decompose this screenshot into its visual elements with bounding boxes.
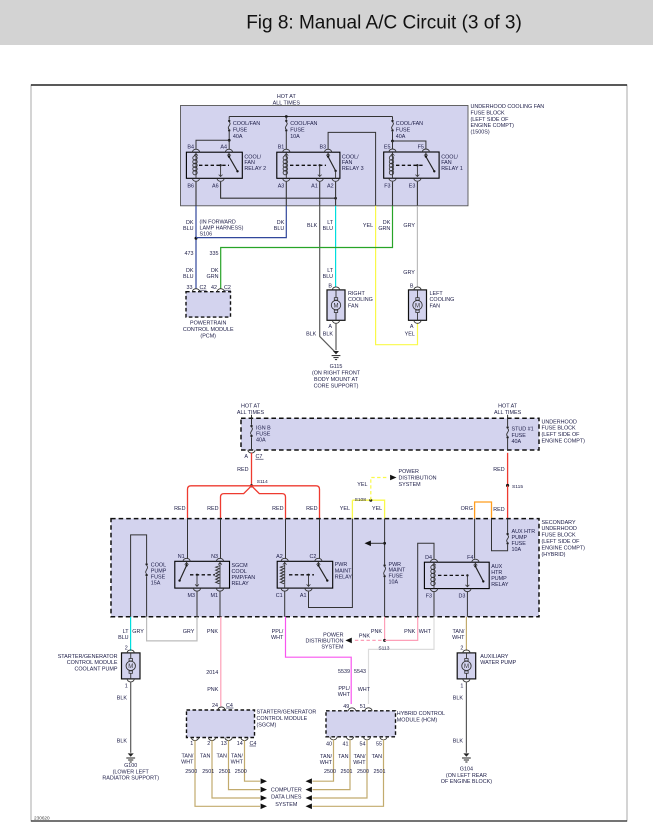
- svg-text:COOLING: COOLING: [348, 297, 373, 303]
- fuse STUD #1 FUSE 40A: [507, 418, 509, 426]
- svg-text:HOT AT: HOT AT: [277, 94, 297, 100]
- module HYBRID CONTROL MODULE (HCM): [326, 711, 396, 737]
- wire relay1 F3 to box bottom: [392, 182, 394, 206]
- svg-text:FUSE BLOCK: FUSE BLOCK: [471, 110, 506, 116]
- pin A2: [281, 558, 288, 561]
- wire TAN/WHT from D3 to aux water pump: [465, 617, 467, 651]
- svg-text:(PCM): (PCM): [200, 333, 216, 339]
- wire red feed to C2 (inside): [319, 519, 321, 559]
- junction A6/A2: [334, 197, 337, 200]
- svg-text:FUSE: FUSE: [233, 127, 248, 133]
- wire TAN circuit 2501 SGCM 13 to data lines: [229, 740, 261, 789]
- pin N3: [216, 558, 223, 561]
- svg-text:DATA LINES: DATA LINES: [271, 795, 302, 801]
- pin A (left fan): [414, 320, 421, 323]
- junction arrow tap on PWR MAINT feed: [383, 542, 386, 545]
- svg-text:SYSTEM: SYSTEM: [399, 482, 422, 488]
- svg-text:WHT: WHT: [358, 687, 371, 693]
- svg-text:(1500S): (1500S): [471, 130, 490, 136]
- svg-text:UNDERHOOD COOLING FAN: UNDERHOOD COOLING FAN: [471, 104, 545, 110]
- svg-text:FUSE: FUSE: [256, 432, 271, 438]
- pin D4: [430, 559, 437, 562]
- pin F3: [430, 589, 437, 592]
- svg-text:HOT AT: HOT AT: [498, 404, 518, 410]
- junction below right fuse: [391, 140, 394, 143]
- wire RED S115 to AUX HTR PUMP fuse: [507, 486, 509, 519]
- svg-text:HOT AT: HOT AT: [241, 404, 261, 410]
- wire red feed to N3 (inside): [220, 519, 222, 559]
- fuse IGN B FUSE 40A: [251, 418, 253, 425]
- wire YEL from relay3 B3 to left fan A: [376, 206, 418, 345]
- splice S113: [383, 639, 386, 642]
- wire feed bus inside fuse block: [229, 116, 392, 118]
- wire WHT circuit 5543 to HCM 51: [369, 617, 435, 704]
- svg-text:B6: B6: [187, 184, 194, 190]
- svg-text:ENGINE COMPT): ENGINE COMPT): [471, 123, 515, 129]
- wire DK BLU circuit 473 (B6 to splice S106 to PCM 33): [195, 206, 197, 289]
- pin A C7 (IGN B fuse output): [248, 450, 255, 453]
- relay COOL/FAN RELAY 1: [384, 145, 439, 190]
- svg-text:UNDERHOOD: UNDERHOOD: [542, 419, 577, 425]
- wire PNK from PWR MAINT fuse to splice S113: [384, 617, 386, 641]
- relay3 dashed link: [290, 164, 326, 166]
- svg-text:CORE SUPPORT): CORE SUPPORT): [314, 383, 359, 389]
- svg-text:A6: A6: [212, 184, 219, 190]
- svg-text:BLK: BLK: [323, 332, 334, 338]
- svg-text:(SGCM): (SGCM): [257, 722, 277, 728]
- svg-text:230620: 230620: [34, 816, 50, 821]
- pin N1: [183, 558, 190, 561]
- svg-text:BLK: BLK: [453, 739, 464, 745]
- svg-text:40A: 40A: [233, 134, 243, 140]
- pin 1 (coolant pump): [127, 679, 134, 682]
- wire ORG jog over box (aux fuse to F4): [475, 502, 492, 519]
- wire fuse3 to relay1 pin E5: [392, 141, 394, 149]
- svg-text:Fig 8: Manual A/C Circuit (3 o: Fig 8: Manual A/C Circuit (3 of 3): [246, 13, 522, 34]
- svg-text:G104: G104: [460, 766, 473, 772]
- relay COOL/FAN RELAY 2: [186, 145, 242, 190]
- svg-text:BLU: BLU: [323, 226, 334, 232]
- svg-text:ALL TIMES: ALL TIMES: [237, 410, 265, 416]
- svg-text:COOLING: COOLING: [430, 297, 455, 303]
- svg-text:RIGHT: RIGHT: [348, 291, 365, 297]
- svg-text:BLK: BLK: [117, 739, 128, 745]
- svg-text:M: M: [128, 664, 133, 670]
- svg-text:2: 2: [460, 645, 463, 651]
- svg-text:BODY MOUNT AT: BODY MOUNT AT: [314, 377, 359, 383]
- svg-text:(LEFT SIDE OF: (LEFT SIDE OF: [471, 117, 510, 123]
- svg-text:WHT: WHT: [271, 635, 284, 641]
- relay3 switch blade: [327, 152, 329, 156]
- svg-text:2501: 2501: [374, 769, 386, 775]
- svg-text:RED: RED: [207, 506, 218, 512]
- svg-text:ORG: ORG: [461, 506, 473, 512]
- svg-text:2501: 2501: [202, 769, 214, 775]
- arrow data line HCM 55: [306, 804, 312, 810]
- aux relay output stub D3: [466, 574, 468, 576]
- wire BLK aux pump to ground G104: [465, 682, 467, 753]
- junction below left fuse: [228, 139, 231, 142]
- arrow data line HCM 40: [306, 778, 312, 784]
- wire RED from IGN B fuse to splice S114: [251, 453, 253, 486]
- svg-text:10A: 10A: [290, 134, 300, 140]
- arrow to power distribution system: [390, 475, 396, 481]
- wire YEL from A1 riser to splice S108: [351, 500, 353, 518]
- svg-text:COOL/FAN: COOL/FAN: [396, 121, 423, 127]
- pin B (left fan): [414, 287, 421, 290]
- svg-text:C2: C2: [309, 554, 316, 560]
- wire GRY loop fuse to M3: [147, 617, 197, 641]
- svg-text:BLU: BLU: [183, 274, 194, 280]
- wire hot feed into IGN B fuse: [251, 415, 253, 418]
- wire relay2 B6 to box bottom: [195, 182, 197, 206]
- svg-text:RED: RED: [493, 467, 504, 473]
- svg-text:SYSTEM: SYSTEM: [321, 645, 344, 651]
- pin 51 (HCM): [365, 708, 372, 711]
- relay PWR MAINT RELAY: [276, 554, 333, 599]
- wire relay2 A6 jog to relay3 A2 line: [221, 182, 336, 199]
- pin E3: [414, 178, 421, 181]
- svg-text:DISTRIBUTION: DISTRIBUTION: [399, 476, 437, 482]
- wire TAN circuit 2501 SGCM 2 to data lines: [212, 740, 260, 798]
- svg-text:YEL: YEL: [357, 482, 367, 488]
- svg-text:335: 335: [210, 251, 219, 257]
- svg-text:GRY: GRY: [403, 270, 415, 276]
- svg-text:B4: B4: [187, 145, 194, 151]
- pin B3: [325, 149, 332, 152]
- svg-text:RELAY 2: RELAY 2: [244, 166, 266, 172]
- pin 14 (SGCM): [241, 738, 248, 741]
- motor RIGHT COOLING FAN: [327, 290, 345, 320]
- svg-text:M: M: [464, 664, 469, 670]
- svg-text:G100: G100: [124, 763, 137, 769]
- svg-text:FAN: FAN: [348, 303, 359, 309]
- wire A1 to yellow riser (inside): [309, 519, 353, 608]
- wire relay3 A3 to box bottom: [285, 182, 287, 206]
- motor STARTER/GENERATOR CONTROL MODULE COOLANT PUMP: [122, 653, 141, 679]
- svg-text:ENGINE COMPT): ENGINE COMPT): [542, 439, 586, 445]
- svg-text:33: 33: [187, 285, 193, 291]
- svg-text:WHT: WHT: [231, 759, 244, 765]
- svg-text:BLK: BLK: [117, 696, 128, 702]
- pin 1 (SGCM): [191, 738, 198, 741]
- svg-text:C1: C1: [276, 593, 283, 599]
- relay3 output stub A1: [319, 164, 321, 166]
- wire RED S114 branch to relay C2: [252, 486, 320, 519]
- svg-text:10A: 10A: [512, 547, 522, 553]
- pin B4: [192, 149, 199, 152]
- svg-text:15A: 15A: [151, 580, 161, 586]
- aux relay dashed link: [438, 574, 464, 576]
- wire YEL from S108 to PWR MAINT fuse: [352, 500, 384, 518]
- wire D4 feed jog (inside): [418, 543, 434, 617]
- pwr maint relay coil: [284, 561, 286, 564]
- svg-text:M: M: [415, 303, 420, 309]
- svg-text:A2: A2: [327, 184, 334, 190]
- svg-text:YEL: YEL: [405, 332, 415, 338]
- svg-text:RED: RED: [237, 467, 248, 473]
- arrow data line SGCM 13: [261, 787, 267, 793]
- svg-text:STUD #1: STUD #1: [512, 427, 534, 433]
- svg-text:YEL: YEL: [372, 506, 382, 512]
- pin 13 (SGCM): [225, 738, 232, 741]
- svg-text:WATER PUMP: WATER PUMP: [480, 660, 516, 666]
- svg-text:STARTER/GENERATOR: STARTER/GENERATOR: [58, 654, 118, 660]
- relay1 output stub E3: [416, 164, 418, 166]
- pin F5: [422, 149, 429, 152]
- svg-text:F5: F5: [418, 145, 424, 151]
- svg-text:BLU: BLU: [274, 226, 285, 232]
- svg-text:S106: S106: [200, 232, 213, 238]
- svg-text:PNK: PNK: [371, 629, 382, 635]
- pin A4: [225, 149, 232, 152]
- svg-text:COOLANT PUMP: COOLANT PUMP: [74, 666, 117, 672]
- pin 24 C4 (SGCM): [218, 707, 225, 710]
- pin A1: [305, 588, 312, 591]
- wire DK GRN from relay1 F3 to PCM 42: [221, 206, 393, 289]
- aux relay coil: [433, 562, 435, 565]
- wire RED S114 branch to relay N3: [221, 486, 252, 519]
- wire M1 to box bottom (inside): [219, 591, 221, 617]
- pin E5: [389, 149, 396, 152]
- svg-text:IGN B: IGN B: [256, 425, 271, 431]
- svg-text:HYBRID CONTROL: HYBRID CONTROL: [397, 711, 445, 717]
- svg-text:MAINT: MAINT: [335, 568, 352, 574]
- aux relay switch blade: [474, 562, 476, 566]
- svg-text:AUXILIARY: AUXILIARY: [480, 654, 508, 660]
- wire TAN circuit 2501 HCM 55 to data lines: [313, 740, 384, 807]
- pwr maint relay switch blade: [317, 561, 319, 565]
- svg-text:B: B: [410, 283, 414, 289]
- pin F3: [389, 178, 396, 181]
- svg-text:A4: A4: [220, 145, 227, 151]
- svg-text:51: 51: [360, 704, 366, 710]
- svg-text:2: 2: [207, 741, 210, 747]
- svg-text:N1: N1: [178, 554, 185, 560]
- wire BLK right fan A to ground G115: [335, 323, 337, 350]
- wire fuse3 to relay1 pin F5: [393, 141, 426, 149]
- arrow to power distribution (bottom): [345, 638, 351, 644]
- svg-text:B3: B3: [320, 145, 327, 151]
- underhood cooling fan fuse block (box): [181, 106, 469, 206]
- sgcm relay output stub M3: [196, 574, 198, 576]
- svg-text:SYSTEM: SYSTEM: [275, 802, 298, 808]
- svg-text:S114: S114: [257, 479, 268, 485]
- svg-text:FUSE: FUSE: [290, 127, 305, 133]
- relay1 dashed link: [396, 164, 423, 166]
- svg-text:TAN: TAN: [200, 753, 210, 759]
- svg-text:2500: 2500: [185, 769, 197, 775]
- svg-text:42: 42: [211, 285, 217, 291]
- pin B6: [192, 178, 199, 181]
- svg-text:RELAY: RELAY: [335, 575, 353, 581]
- splice S114: [250, 484, 253, 487]
- ground G104: [463, 753, 469, 756]
- svg-text:BLK: BLK: [306, 332, 317, 338]
- svg-text:FUSE BLOCK: FUSE BLOCK: [542, 426, 577, 432]
- svg-text:FUSE: FUSE: [512, 433, 527, 439]
- wire LT BLU from relay3 A2 to right fan B: [335, 206, 337, 287]
- svg-text:COOL/FAN: COOL/FAN: [290, 121, 317, 127]
- svg-text:YEL: YEL: [340, 506, 350, 512]
- relay1 coil: [392, 152, 394, 156]
- svg-text:BLU: BLU: [183, 226, 194, 232]
- svg-text:2501: 2501: [341, 769, 353, 775]
- svg-text:PNK: PNK: [404, 629, 415, 635]
- svg-text:RED: RED: [174, 506, 185, 512]
- svg-text:GRN: GRN: [207, 274, 219, 280]
- svg-text:RADIATOR SUPPORT): RADIATOR SUPPORT): [102, 775, 159, 781]
- fuse COOL/FAN FUSE 40A (right): [392, 117, 394, 120]
- pin 55 (HCM): [380, 737, 387, 740]
- svg-text:S113: S113: [378, 645, 389, 651]
- svg-text:WHT: WHT: [338, 692, 351, 698]
- svg-text:WHT: WHT: [181, 759, 194, 765]
- title bar: [0, 0, 653, 45]
- pin 2 (coolant pump): [127, 650, 134, 653]
- wire BLK from relay3 A1 to ground G115: [320, 206, 335, 352]
- arrow data line SGCM 2: [261, 795, 267, 801]
- svg-text:40A: 40A: [256, 438, 266, 444]
- svg-text:RED: RED: [272, 506, 283, 512]
- pin C2: [315, 558, 322, 561]
- svg-text:CONTROL MODULE: CONTROL MODULE: [183, 327, 234, 333]
- svg-text:24: 24: [212, 703, 218, 709]
- wire fuse1 to relay2 pin B4: [196, 140, 229, 149]
- svg-text:(LEFT SIDE OF: (LEFT SIDE OF: [542, 539, 581, 545]
- ground G100: [128, 753, 134, 756]
- fuse COOL/FAN FUSE 10A (middle): [285, 117, 287, 120]
- svg-text:2: 2: [125, 645, 128, 651]
- svg-text:PNK: PNK: [359, 634, 370, 640]
- splice S106: [195, 237, 198, 240]
- splice S108: [369, 499, 372, 502]
- svg-text:49: 49: [343, 704, 349, 710]
- sgcm relay coil: [219, 561, 221, 564]
- pwr maint relay dashed link: [289, 574, 314, 576]
- svg-text:41: 41: [343, 742, 349, 748]
- splice S115: [506, 484, 509, 487]
- arrow data line HCM 41: [306, 787, 312, 793]
- wire TAN/WHT circuit 2500 SGCM 1 to data lines: [195, 740, 260, 806]
- svg-text:(ON RIGHT FRONT: (ON RIGHT FRONT: [312, 371, 361, 377]
- svg-text:13: 13: [221, 741, 227, 747]
- svg-text:B: B: [328, 283, 332, 289]
- svg-text:2500: 2500: [324, 769, 336, 775]
- wire relay3 A2 to box bottom: [335, 182, 337, 206]
- svg-text:D4: D4: [425, 555, 432, 561]
- svg-text:F3: F3: [426, 593, 432, 599]
- pwr maint relay output stub A1: [307, 574, 309, 576]
- arrow data line SGCM 14: [261, 778, 267, 784]
- relay AUX HTR PUMP RELAY: [424, 555, 489, 599]
- pin 54 (HCM): [363, 737, 370, 740]
- fuse COOL PUMP FUSE 15A: [145, 563, 147, 565]
- svg-text:54: 54: [360, 742, 366, 748]
- svg-text:STARTER/GENERATOR: STARTER/GENERATOR: [257, 710, 317, 716]
- svg-text:A: A: [244, 454, 248, 460]
- wire fuse1 to relay2 pin A4: [228, 140, 230, 149]
- svg-text:14: 14: [237, 741, 243, 747]
- pin D3: [464, 589, 471, 592]
- fuse AUX HTR PUMP FUSE 10A: [507, 519, 509, 533]
- arrow data line HCM 54: [306, 795, 312, 801]
- svg-text:CONTROL MODULE: CONTROL MODULE: [67, 660, 118, 666]
- wire PPL/WHT circuit 5539 to HCM 49: [286, 617, 352, 704]
- pin F4: [472, 559, 479, 562]
- svg-text:FAN: FAN: [430, 303, 441, 309]
- svg-text:2014: 2014: [206, 670, 218, 676]
- pin 2 (aux pump): [463, 650, 470, 653]
- svg-text:GRY: GRY: [132, 629, 144, 635]
- wire C1 to box bottom (inside): [284, 591, 286, 617]
- relay3 coil: [285, 152, 287, 156]
- wire TAN/WHT circuit 2500 HCM 54 to data lines: [313, 740, 368, 798]
- svg-text:2500: 2500: [235, 769, 247, 775]
- svg-text:TAN: TAN: [338, 754, 348, 760]
- svg-text:2501: 2501: [219, 769, 231, 775]
- svg-text:10A: 10A: [389, 580, 399, 586]
- arrow data line SGCM 1: [261, 804, 267, 810]
- pin 40 (HCM): [330, 737, 337, 740]
- svg-text:PNK: PNK: [207, 629, 218, 635]
- pin 33 C2 (PCM): [192, 289, 199, 292]
- arrow left (power distribution tap): [365, 541, 371, 547]
- secondary underhood fuse block (box): [111, 519, 539, 617]
- svg-text:PWR: PWR: [335, 562, 348, 568]
- svg-text:D3: D3: [458, 593, 465, 599]
- svg-text:1: 1: [190, 741, 193, 747]
- svg-text:A1: A1: [311, 184, 318, 190]
- svg-text:(HYBRID): (HYBRID): [542, 552, 566, 558]
- pin M1: [216, 588, 223, 591]
- svg-text:5543: 5543: [354, 669, 366, 675]
- relay COOL/FAN RELAY 3: [277, 145, 340, 190]
- svg-text:S115: S115: [512, 484, 523, 490]
- svg-text:GRY: GRY: [403, 223, 415, 229]
- svg-text:40: 40: [326, 742, 332, 748]
- pin 1 (aux pump): [463, 679, 470, 682]
- pin A3: [283, 178, 290, 181]
- wire relay3 A1 to box bottom: [319, 182, 321, 206]
- sgcm relay switch blade: [186, 561, 188, 565]
- pin 41 (HCM): [346, 737, 353, 740]
- ground G115: [333, 351, 339, 354]
- svg-text:(LEFT SIDE OF: (LEFT SIDE OF: [542, 432, 581, 438]
- svg-text:COOL/FAN: COOL/FAN: [233, 121, 260, 127]
- svg-text:RELAY 3: RELAY 3: [342, 166, 364, 172]
- svg-text:BLK: BLK: [453, 696, 464, 702]
- svg-text:GRY: GRY: [183, 629, 195, 635]
- svg-text:RELAY: RELAY: [232, 581, 250, 587]
- svg-text:OF ENGINE BLOCK): OF ENGINE BLOCK): [441, 779, 492, 785]
- wire RED from STUD 1 fuse to splice S115: [507, 453, 509, 486]
- underhood fuse block (box): [241, 418, 539, 450]
- wire hot feed into STUD 1 fuse: [507, 415, 509, 418]
- svg-text:RED: RED: [493, 507, 504, 513]
- fuse COOL/FAN FUSE 40A (left): [228, 117, 230, 120]
- svg-text:PNK: PNK: [207, 687, 218, 693]
- relay2 output stub A6: [219, 164, 221, 166]
- relay2 dashed link: [199, 164, 229, 166]
- wire F3 to box bottom (inside): [433, 592, 435, 617]
- pin 42 C2 (PCM): [217, 289, 224, 292]
- svg-text:F4: F4: [467, 555, 473, 561]
- svg-text:WHT: WHT: [353, 760, 366, 766]
- svg-text:BLU: BLU: [323, 274, 334, 280]
- wire hot feed into fuse block: [285, 106, 287, 117]
- svg-text:A3: A3: [278, 184, 285, 190]
